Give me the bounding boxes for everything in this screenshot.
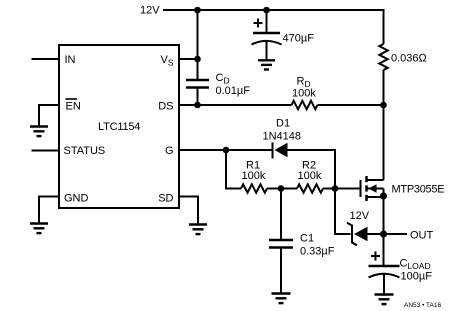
wire STATUS stub — [32, 150, 60, 152]
wire VS pin stub — [179, 58, 198, 60]
svg-text:470µF: 470µF — [283, 33, 315, 45]
ground EN — [30, 127, 48, 137]
wire top 12V rail — [163, 10, 384, 44]
node junction CD-DS — [194, 102, 201, 109]
svg-text:DS: DS — [158, 101, 173, 113]
svg-text:OUT: OUT — [410, 230, 434, 242]
svg-text:0.33µF: 0.33µF — [300, 246, 335, 258]
zener D2 12V — [347, 223, 384, 245]
wire DS line right — [318, 104, 384, 106]
diode D1 — [273, 143, 288, 159]
svg-text:100k: 100k — [298, 170, 322, 182]
node junction VS-CD — [194, 56, 201, 63]
wire EN stub — [39, 105, 59, 126]
wire drain riser — [383, 70, 385, 180]
svg-text:IN: IN — [65, 54, 76, 66]
wire R1 branch — [226, 150, 241, 189]
node junction DS-drain — [380, 102, 387, 109]
plus sign CLOAD — [371, 252, 380, 261]
svg-text:LTC1154: LTC1154 — [98, 121, 140, 133]
svg-text:100k: 100k — [242, 170, 266, 182]
plus sign 470uF — [254, 19, 263, 28]
ground C1 — [272, 294, 291, 304]
wire DS line — [179, 104, 292, 106]
wire R2 to gate node — [323, 188, 361, 190]
svg-text:12V: 12V — [350, 210, 370, 222]
wire R1-R2 — [267, 188, 297, 190]
svg-text:C1: C1 — [300, 233, 314, 245]
capacitor 470uF lead — [266, 10, 268, 32]
svg-text:0.01µF: 0.01µF — [216, 85, 251, 97]
svg-text:AN53 • TA16: AN53 • TA16 — [404, 302, 441, 309]
label EN overline — [66, 98, 78, 100]
capacitor CLOAD — [369, 234, 400, 294]
svg-text:1N4148: 1N4148 — [263, 131, 302, 143]
node junction G-R1 — [223, 147, 230, 154]
svg-text:EN: EN — [66, 101, 81, 113]
svg-text:D1: D1 — [276, 118, 290, 130]
wire G line left — [179, 149, 273, 151]
capacitor C1 branch — [269, 189, 293, 294]
resistor R2 — [297, 184, 323, 192]
node junction source — [380, 192, 387, 199]
svg-text:STATUS: STATUS — [64, 145, 106, 157]
svg-text:G: G — [165, 145, 174, 157]
svg-text:12V: 12V — [140, 5, 160, 17]
wire G line right — [288, 150, 336, 189]
node junction OUT — [380, 230, 387, 237]
transistor Q1 MTP3055E — [361, 176, 384, 234]
op-amp U1 LTC1154 box — [59, 45, 179, 208]
svg-text:100k: 100k — [292, 88, 316, 100]
svg-text:SD: SD — [158, 193, 173, 205]
svg-text:100µF: 100µF — [401, 271, 433, 283]
resistor RD — [292, 101, 318, 109]
wire zener branch — [335, 189, 351, 235]
wire GND stub — [39, 197, 59, 224]
ground CLOAD — [375, 295, 394, 305]
node junction gate — [332, 185, 339, 192]
capacitor 470uF plates — [252, 33, 282, 60]
wire VS riser — [197, 10, 199, 59]
capacitor CD — [186, 59, 209, 105]
resistor R1 — [241, 184, 267, 192]
wire OUT stub — [384, 233, 408, 235]
ground GND — [30, 224, 48, 234]
svg-text:0.036Ω: 0.036Ω — [391, 53, 428, 65]
ground 470uF — [258, 60, 275, 69]
node junction 12V-470uF — [263, 7, 270, 14]
node junction 12V-VS — [194, 7, 201, 14]
resistor 0.036ohm — [379, 44, 387, 70]
svg-text:MTP3055E: MTP3055E — [392, 184, 445, 196]
wire SD stub — [179, 197, 198, 225]
wire IN stub — [32, 58, 60, 60]
svg-text:GND: GND — [64, 193, 89, 205]
ground SD — [189, 225, 207, 235]
node junction R1-R2-C1 — [278, 185, 285, 192]
